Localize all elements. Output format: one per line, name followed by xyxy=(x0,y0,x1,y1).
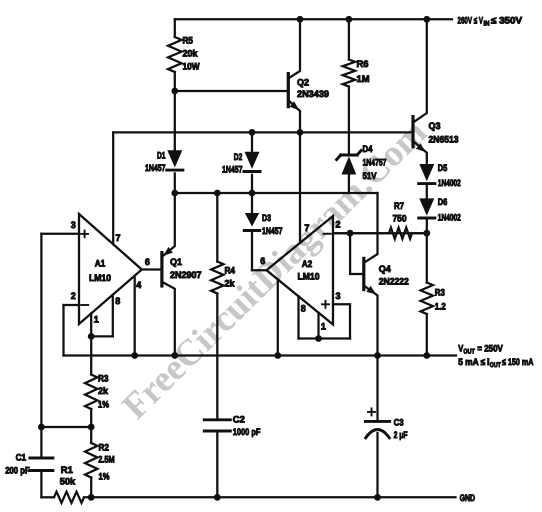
label pin 6 A1 xyxy=(145,256,150,267)
label Q4 xyxy=(379,263,409,287)
diode D1 1N457 xyxy=(167,150,183,193)
label R3 1.2 xyxy=(435,286,446,311)
wire R3 to C1 link xyxy=(41,426,91,428)
svg-text:A2: A2 xyxy=(302,258,313,269)
node Q2 emitter on bus xyxy=(297,129,304,136)
node C1 branch junction xyxy=(38,424,45,431)
wire top supply rail xyxy=(175,18,452,20)
label R4 xyxy=(225,264,236,288)
svg-text:Q2: Q2 xyxy=(297,76,309,87)
label C1 xyxy=(5,451,30,475)
svg-text:2N2222: 2N2222 xyxy=(379,275,409,286)
capacitor C2 1000pF xyxy=(204,420,230,498)
wire middle bus xyxy=(175,192,378,194)
svg-text:D2: D2 xyxy=(234,151,243,162)
svg-text:1N457: 1N457 xyxy=(262,225,283,236)
svg-text:7: 7 xyxy=(304,222,309,233)
label pin 1 A2 xyxy=(321,320,326,331)
wire A1 pin1 xyxy=(91,313,113,336)
label R1 xyxy=(60,464,76,486)
wire A1 pin3 input xyxy=(41,234,79,427)
wire A2 pin7 xyxy=(299,132,301,243)
svg-text:6: 6 xyxy=(145,256,150,267)
svg-text:A1: A1 xyxy=(95,257,106,268)
transistor Q1 2N2907 xyxy=(162,193,175,356)
svg-text:1000 pF: 1000 pF xyxy=(233,426,261,437)
svg-text:750: 750 xyxy=(393,213,407,224)
label R2 xyxy=(98,442,115,482)
wire D6 to node xyxy=(426,219,428,233)
node R6 on rail xyxy=(346,16,353,23)
node Q1 collector on bus xyxy=(171,352,178,359)
node C3 on ground xyxy=(374,494,381,501)
label pin 7 A1 xyxy=(116,232,121,243)
node A2 pin4 on bus xyxy=(274,352,281,359)
node R3 on bus xyxy=(423,352,430,359)
svg-text:LM10: LM10 xyxy=(298,271,320,282)
svg-text:R1: R1 xyxy=(61,464,73,475)
resistor R4 xyxy=(211,193,223,420)
svg-text:8: 8 xyxy=(301,303,306,314)
svg-text:5 mA ≤: 5 mA ≤ xyxy=(458,356,485,367)
svg-text:2k: 2k xyxy=(225,277,236,288)
transistor Q4 2N2222 xyxy=(350,193,377,356)
svg-text:1N457: 1N457 xyxy=(145,162,166,173)
svg-text:1N457: 1N457 xyxy=(222,163,243,174)
node Q4 emitter on bus xyxy=(374,352,381,359)
capacitor C1 200pF xyxy=(30,427,53,497)
node D3 anode xyxy=(249,190,256,197)
resistor R3 1.2 xyxy=(421,233,433,355)
label Q2 xyxy=(297,76,329,99)
svg-text:D6: D6 xyxy=(438,196,448,207)
resistor R7 xyxy=(333,228,427,239)
wire A1 pin4 xyxy=(134,276,136,356)
svg-text:260V ≤ V: 260V ≤ V xyxy=(458,14,484,25)
svg-text:1%: 1% xyxy=(99,470,111,481)
capacitor C3 2uF xyxy=(365,356,389,498)
label D3 xyxy=(262,212,283,236)
svg-text:2k: 2k xyxy=(98,385,109,396)
resistor R6 xyxy=(343,19,355,155)
diode D5 1N4002 xyxy=(419,164,435,184)
wire left bus xyxy=(113,132,413,244)
svg-text:1M: 1M xyxy=(357,73,370,84)
wire A1 pin2 input xyxy=(64,305,80,356)
svg-text:Q3: Q3 xyxy=(429,120,441,131)
wire A2 pin2 to R7 xyxy=(333,232,427,234)
node R7-D6 junction xyxy=(423,230,430,237)
svg-text:2N6513: 2N6513 xyxy=(429,133,459,144)
svg-text:1: 1 xyxy=(94,313,99,324)
svg-text:LM10: LM10 xyxy=(89,272,111,283)
svg-text:2 μF: 2 μF xyxy=(394,429,408,440)
svg-text:R3: R3 xyxy=(98,373,109,384)
node D1 cathode on bus xyxy=(171,190,178,197)
diode D6 1N4002 xyxy=(419,198,435,218)
svg-text:GND: GND xyxy=(460,492,476,503)
svg-text:1: 1 xyxy=(321,320,326,331)
label pin 2 A1 xyxy=(71,290,76,301)
label D6 xyxy=(438,196,461,223)
svg-text:D3: D3 xyxy=(262,212,271,223)
node Q2 collector on rail xyxy=(297,16,304,23)
label pin 2 A2 xyxy=(336,219,341,230)
label minus input A1 xyxy=(81,304,88,306)
svg-text:10W: 10W xyxy=(183,60,200,71)
label V_OUT xyxy=(458,342,533,369)
diode D3 1N457 xyxy=(244,193,260,270)
label plus input A1 xyxy=(81,231,88,238)
node R4 top xyxy=(214,190,221,197)
svg-text:2.5M: 2.5M xyxy=(98,453,115,464)
svg-text:7: 7 xyxy=(116,232,121,243)
label minus input A2 xyxy=(324,233,331,235)
label R5 value xyxy=(183,34,200,71)
svg-text:1N4757: 1N4757 xyxy=(363,156,387,167)
svg-text:1N4002: 1N4002 xyxy=(438,177,461,188)
svg-text:C2: C2 xyxy=(233,414,245,425)
wire A2 pin1 xyxy=(299,313,351,339)
svg-text:2: 2 xyxy=(336,219,341,230)
wire D5-D6 xyxy=(426,185,428,199)
node pin1-R3 junction xyxy=(88,333,95,340)
label pin 6 A2 xyxy=(260,255,265,266)
label plus input A2 xyxy=(322,301,329,308)
svg-text:= 250V: = 250V xyxy=(477,342,503,353)
svg-text:C1: C1 xyxy=(16,451,27,462)
svg-text:1.2: 1.2 xyxy=(435,300,446,311)
svg-text:OUT: OUT xyxy=(490,362,502,369)
node pin1 A2 junction xyxy=(315,335,322,342)
svg-text:Q1: Q1 xyxy=(170,256,182,267)
label R7 xyxy=(393,200,407,224)
label C3 xyxy=(394,416,408,440)
wire A1 output xyxy=(142,268,162,270)
svg-text:8: 8 xyxy=(115,295,120,306)
svg-text:3: 3 xyxy=(336,290,341,301)
svg-text:2N3439: 2N3439 xyxy=(297,88,329,99)
label pin 3 A2 xyxy=(336,290,341,301)
svg-text:1N4002: 1N4002 xyxy=(438,212,461,223)
node pin4 A1 on bus xyxy=(131,352,138,359)
label pin 7 A2 xyxy=(304,222,309,233)
node C2 on ground xyxy=(214,494,221,501)
svg-text:2N2907: 2N2907 xyxy=(170,269,202,280)
label GND xyxy=(460,492,476,503)
node Q3 collector on rail xyxy=(423,16,430,23)
svg-text:51V: 51V xyxy=(363,170,378,181)
node Q4 base tap xyxy=(347,230,354,237)
svg-text:20k: 20k xyxy=(183,47,199,58)
label Q3 xyxy=(429,120,459,145)
node R2 on ground xyxy=(88,494,95,501)
wire Q2 base xyxy=(175,90,288,92)
svg-text:C3: C3 xyxy=(394,416,404,427)
node V_IN label xyxy=(458,14,523,27)
label pin 3 A1 xyxy=(71,219,76,230)
wire A2 pin8 xyxy=(297,296,299,338)
zener diode D4 1N4757 xyxy=(337,150,362,193)
svg-text:R3: R3 xyxy=(435,286,445,297)
wire D3 to A2 output xyxy=(252,269,267,271)
label C2 xyxy=(233,414,261,437)
svg-text:D4: D4 xyxy=(363,143,374,154)
label D1 xyxy=(145,149,166,173)
label pin 8 A2 xyxy=(301,303,306,314)
op-amp A2 LM10 xyxy=(267,216,334,325)
svg-text:2: 2 xyxy=(71,290,76,301)
resistor R3 2k xyxy=(85,336,97,427)
node R3-R2 junction xyxy=(88,424,95,431)
label pin 1 A1 xyxy=(94,313,99,324)
label D2 xyxy=(222,151,243,175)
wire A2 pin4 xyxy=(277,279,279,355)
resistor R5 xyxy=(168,19,182,150)
svg-text:200 pF: 200 pF xyxy=(5,465,30,476)
svg-text:1%: 1% xyxy=(98,399,110,410)
label R6 xyxy=(357,58,370,84)
resistor R2 2.5M xyxy=(85,427,97,497)
svg-text:R6: R6 xyxy=(357,58,369,69)
op-amp A1 LM10 xyxy=(79,214,142,324)
wire A1 pin8 xyxy=(112,295,114,337)
transistor Q2 2N3439 xyxy=(288,19,300,132)
svg-text:Q4: Q4 xyxy=(379,263,392,274)
label pin 8 A1 xyxy=(115,295,120,306)
label R3 2k xyxy=(98,373,110,410)
svg-text:R5: R5 xyxy=(183,34,194,45)
label D5 xyxy=(438,162,461,188)
svg-text:3: 3 xyxy=(71,219,76,230)
svg-text:R7: R7 xyxy=(394,200,404,211)
label Q1 xyxy=(170,256,202,280)
svg-text:50k: 50k xyxy=(60,475,76,486)
svg-text:D5: D5 xyxy=(438,162,448,173)
svg-text:≤ 150 mA: ≤ 150 mA xyxy=(502,356,534,367)
wire output bus xyxy=(64,354,457,356)
node D2 anode xyxy=(249,129,256,136)
transistor Q3 2N6513 xyxy=(413,19,427,164)
svg-text:≤ 350V: ≤ 350V xyxy=(491,14,523,25)
wire ground rail xyxy=(41,492,455,503)
label D4 xyxy=(363,143,387,181)
svg-text:D1: D1 xyxy=(157,149,166,160)
svg-text:IN: IN xyxy=(484,20,490,27)
svg-text:R4: R4 xyxy=(225,264,236,275)
svg-text:R2: R2 xyxy=(99,442,110,453)
label pin 4 A1 xyxy=(136,279,142,290)
svg-text:OUT: OUT xyxy=(463,349,475,356)
wire A2 pin3 xyxy=(333,304,350,338)
diode D2 1N457 xyxy=(244,132,260,193)
svg-text:4: 4 xyxy=(136,279,142,290)
svg-text:6: 6 xyxy=(260,255,265,266)
node R5-Q2 junction xyxy=(171,88,178,95)
